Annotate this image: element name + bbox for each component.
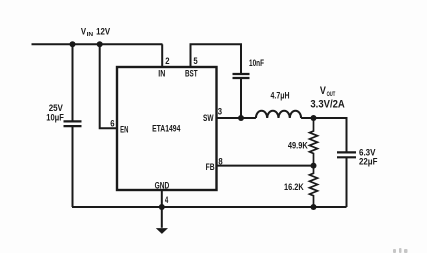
svg-text:ETA1494: ETA1494 — [152, 123, 181, 134]
svg-text:IN: IN — [87, 32, 94, 38]
svg-text:6: 6 — [110, 118, 114, 129]
svg-text:3.3V/2A: 3.3V/2A — [310, 99, 345, 111]
svg-text:BST: BST — [185, 68, 198, 78]
svg-text:4.7μH: 4.7μH — [271, 91, 290, 102]
svg-text:10nF: 10nF — [249, 58, 264, 69]
svg-text:3: 3 — [218, 106, 222, 117]
svg-text:V: V — [320, 85, 327, 97]
svg-text:FB: FB — [206, 162, 215, 172]
svg-text:4: 4 — [165, 195, 169, 206]
svg-text:GND: GND — [155, 180, 170, 190]
svg-text:16.2K: 16.2K — [284, 182, 304, 193]
svg-text:8: 8 — [218, 156, 223, 167]
svg-text:49.9K: 49.9K — [288, 141, 308, 152]
svg-text:EN: EN — [120, 125, 128, 135]
svg-text:22μF: 22μF — [359, 157, 378, 168]
svg-text:OUT: OUT — [327, 91, 336, 98]
svg-text:SW: SW — [203, 113, 214, 123]
svg-text:5: 5 — [193, 56, 198, 67]
svg-text:IN: IN — [158, 68, 165, 78]
svg-text:2: 2 — [165, 56, 169, 67]
svg-text:12V: 12V — [96, 27, 110, 38]
svg-text:10μF: 10μF — [46, 113, 64, 124]
